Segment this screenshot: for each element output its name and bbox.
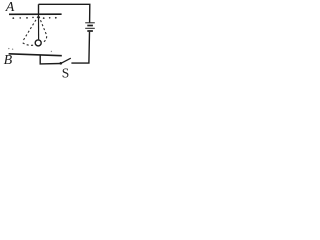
svg-text:B: B <box>4 53 13 68</box>
positive charge dots under plate A <box>12 17 56 19</box>
svg-text:A: A <box>5 0 15 15</box>
wire: plate A up to top rail <box>38 4 40 14</box>
plate B (bottom capacitor plate) <box>9 54 62 56</box>
wire: switch left to riser under plate B <box>40 55 61 64</box>
wire: top rail to top-right corner <box>39 4 90 22</box>
switch S: open blade <box>61 58 71 63</box>
thread (solid suspension string) <box>38 15 40 39</box>
svg-text:S: S <box>62 66 70 80</box>
ball (charged sphere, white fill) <box>35 40 41 46</box>
dashed swing arc, left of ball <box>23 43 36 45</box>
dashed swing arc, right of ball <box>43 36 47 42</box>
wire: battery down to bottom-right corner and left to switch <box>71 32 89 63</box>
battery (two cells) <box>85 23 95 31</box>
switch pivot contact dot <box>60 62 63 65</box>
dashed thread at right swing extreme <box>39 16 47 35</box>
plate A (top capacitor plate) <box>9 13 62 15</box>
dashed thread at left swing extreme <box>23 16 38 40</box>
faint negative charge marks above plate B <box>8 48 52 52</box>
